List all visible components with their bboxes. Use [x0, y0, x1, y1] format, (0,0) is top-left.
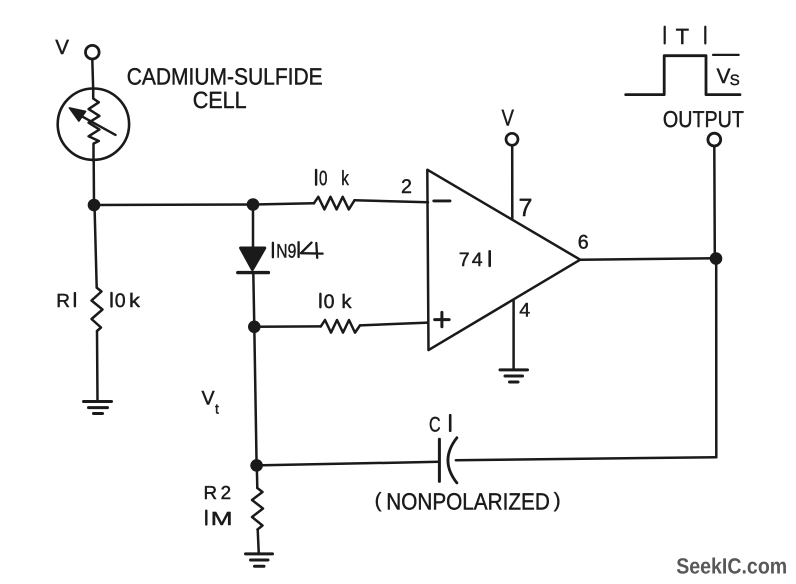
photocell (cadmium-sulfide cell) [58, 89, 129, 162]
resistor R2 [252, 488, 263, 530]
wire node B to 10k resistor [253, 203, 314, 204]
wire node A to node B [94, 203, 253, 206]
svg-text:CELL: CELL [193, 87, 247, 113]
label C1 [429, 413, 450, 436]
svg-text:): ) [554, 489, 561, 512]
svg-text:0: 0 [319, 167, 327, 190]
svg-text:V: V [55, 36, 69, 59]
svg-text:2: 2 [401, 176, 412, 198]
label 10 k (inverting input resistor) [316, 167, 349, 190]
svg-text:(: ( [375, 489, 382, 512]
label 741 [459, 249, 490, 271]
svg-text:N9: N9 [276, 240, 296, 262]
resistor 10k (noninverting input) [321, 320, 360, 333]
svg-text:0: 0 [115, 290, 126, 312]
wire pin 7 [511, 146, 514, 219]
svg-text:S: S [730, 72, 740, 89]
label 1N914 [273, 240, 323, 262]
wire node C to 10k resistor [254, 325, 320, 328]
resistor R1 [92, 288, 103, 331]
wire R1 to ground [96, 331, 99, 402]
svg-text:C: C [429, 413, 441, 436]
label Vs (pulse amplitude) [717, 65, 740, 89]
label Vt (threshold voltage) [202, 387, 220, 416]
svg-text:4: 4 [472, 249, 483, 271]
svg-text:7: 7 [519, 194, 533, 222]
wire pin 6 output to node D [580, 258, 716, 260]
svg-text:k: k [341, 167, 349, 190]
node E (feedback / R2 junction) [250, 459, 263, 472]
ground (R1) [84, 402, 112, 414]
svg-text:T: T [676, 24, 689, 49]
svg-text:2: 2 [221, 482, 231, 503]
svg-text:V: V [717, 65, 731, 88]
svg-text:0: 0 [324, 291, 335, 313]
wire pin 4 [512, 300, 515, 370]
svg-text:4: 4 [519, 299, 530, 321]
ground (pin 4) [500, 370, 528, 382]
label R1 [56, 291, 70, 312]
label 10k (R1) [112, 290, 141, 312]
op-amp U1 741 [427, 170, 580, 350]
label CADMIUM-SULFIDE CELL [127, 64, 323, 113]
svg-text:t: t [215, 401, 219, 417]
waveform icon (output pulse) [626, 27, 740, 95]
ground (R2) [246, 554, 273, 566]
svg-text:k: k [341, 291, 351, 313]
node C (diode cathode / noninverting resistor) [248, 321, 261, 334]
label 10k (noninverting input resistor) [320, 291, 351, 313]
wire node D to output terminal [713, 146, 716, 258]
capacitor C1 [439, 438, 457, 483]
svg-text:R: R [56, 291, 70, 312]
svg-text:CADMIUM-SULFIDE: CADMIUM-SULFIDE [127, 64, 323, 90]
wire node E to R2 [256, 465, 259, 488]
terminal V (op-amp supply) [506, 133, 518, 145]
wire node D down to bottom rail [715, 259, 718, 458]
svg-text:OUTPUT: OUTPUT [663, 106, 744, 132]
wire diode to node C [253, 273, 254, 327]
wire node B to diode D1 [252, 205, 255, 247]
svg-text:SeekIC.com: SeekIC.com [676, 553, 787, 578]
node A (photocell / R1 / bridge) [88, 199, 101, 212]
label (NONPOLARIZED) [375, 489, 561, 515]
svg-text:M: M [211, 509, 233, 530]
svg-text:k: k [129, 290, 140, 312]
resistor 10k (inverting input) [314, 197, 355, 210]
svg-text:6: 6 [578, 232, 589, 254]
wire node A down to R1 [95, 205, 97, 288]
wire R2 to ground [258, 530, 259, 554]
wire terminal to photocell [91, 59, 94, 90]
svg-text:V: V [502, 105, 515, 131]
svg-text:NONPOLARIZED: NONPOLARIZED [386, 489, 550, 515]
node B (bridge / diode anode) [247, 198, 260, 211]
wire resistor to op-amp pin 3 [360, 323, 428, 326]
terminal V (photocell supply) [86, 45, 100, 59]
svg-text:V: V [202, 387, 216, 409]
node D (output junction) [710, 252, 723, 265]
label R2 [204, 482, 232, 503]
wire photocell to node A [92, 161, 95, 205]
diode D1 1N914 [238, 248, 269, 273]
label 1M [206, 509, 232, 530]
terminal OUTPUT [708, 133, 721, 146]
svg-text:R: R [204, 482, 218, 503]
svg-text:7: 7 [459, 249, 470, 271]
wire resistor to op-amp pin 2 [355, 200, 429, 202]
wire bottom rail left segment [257, 462, 440, 466]
wire node C to node E [254, 327, 256, 466]
wire bottom rail right segment [456, 457, 717, 460]
